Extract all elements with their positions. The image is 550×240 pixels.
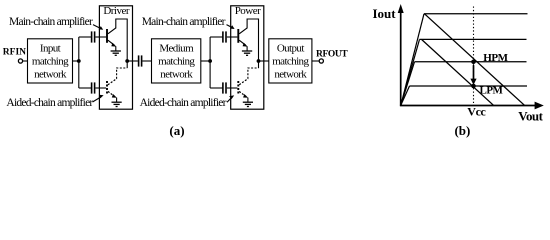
svg-text:network: network: [274, 68, 307, 80]
wire output box to RFOUT: [312, 60, 319, 62]
curve 4 flat top: [410, 85, 528, 87]
svg-text:Vcc: Vcc: [467, 104, 486, 118]
ground (Q2 emitter): [112, 102, 122, 106]
svg-text:Aided-chain amplifier: Aided-chain amplifier: [6, 97, 93, 109]
wire Q1 collector: [116, 19, 127, 61]
wire C2 to Q2 base: [95, 87, 106, 89]
wire node C to capacitor C5: [210, 87, 222, 89]
wire node B to capacitor C3: [127, 60, 138, 62]
svg-text:network: network: [160, 68, 193, 80]
x-axis Vout: [400, 105, 537, 107]
wire C4 to Q3 base: [227, 36, 238, 38]
curve 1 flat top: [424, 13, 528, 15]
svg-text:LPM: LPM: [480, 84, 504, 96]
svg-text:Main-chain amplifier: Main-chain amplifier: [142, 16, 226, 28]
arrow to Q4: [227, 98, 232, 103]
input matching network box: [28, 39, 73, 83]
svg-text:Output: Output: [277, 42, 305, 54]
svg-text:HPM: HPM: [483, 52, 508, 64]
arrow to Q2: [93, 97, 101, 102]
capacitor C3 (interstage coupling): [139, 55, 142, 66]
wire Q1 emitter stem: [115, 46, 117, 51]
wire node A to capacitor C2: [79, 87, 91, 89]
wire medium box to node C: [201, 60, 210, 62]
ground (Q3 emitter): [242, 51, 252, 55]
wire RFIN to input matching network: [23, 60, 28, 62]
arrow to Q3: [227, 25, 232, 28]
wire node D to output matching network: [259, 60, 269, 62]
transistor Q3 (power main-chain): [238, 28, 247, 47]
svg-text:RFOUT: RFOUT: [316, 49, 348, 59]
wire Q2 emitter stem: [116, 98, 118, 103]
medium matching network box: [152, 39, 201, 83]
svg-text:matching: matching: [158, 55, 195, 67]
wire node A to capacitor C1: [79, 36, 91, 38]
svg-text:Input: Input: [40, 42, 61, 54]
wire node C vertical rail: [209, 37, 211, 88]
svg-text:Vout: Vout: [518, 108, 543, 123]
svg-text:matching: matching: [272, 55, 309, 67]
svg-text:Iout: Iout: [373, 6, 397, 21]
svg-text:(a): (a): [169, 123, 184, 138]
wire Q4 emitter stem: [247, 98, 249, 103]
load line LPM: [422, 39, 494, 105]
node D junction dot: [257, 59, 261, 63]
node LPM operating point: [471, 84, 476, 89]
wire C5 to Q4 base: [227, 87, 238, 89]
curve 3 flat top: [415, 61, 527, 63]
curve 2 flat top: [420, 38, 527, 40]
arrow to Q1: [93, 25, 100, 29]
node A junction dot: [77, 59, 81, 63]
svg-text:RFIN: RFIN: [3, 47, 26, 57]
power box: [231, 6, 264, 109]
svg-text:Main-chain amplifier: Main-chain amplifier: [9, 16, 93, 28]
node B junction dot: [125, 59, 129, 63]
node HPM operating point: [471, 60, 476, 65]
transistor Q1 (driver main-chain): [107, 28, 116, 47]
wire Q3 emitter stem: [246, 46, 248, 51]
wire input box to node A: [73, 60, 79, 62]
svg-text:(b): (b): [454, 123, 470, 138]
RFOUT output terminal: [319, 59, 323, 63]
knee line to curve 2: [401, 39, 420, 105]
y-axis Iout: [400, 10, 402, 106]
output matching network box: [269, 39, 312, 83]
knee line to curve 4: [401, 86, 410, 105]
transistor Q4 (power aided-chain, dashed): [238, 79, 248, 97]
arrow HPM to LPM: [473, 65, 475, 80]
wire Q2 collector (dashed): [117, 68, 128, 79]
svg-text:Aided-chain amplifier: Aided-chain amplifier: [140, 97, 227, 109]
wire Q3 collector: [247, 19, 258, 61]
svg-text:matching: matching: [32, 55, 69, 67]
capacitor C4 (power main input): [223, 31, 226, 42]
knee line to curve 3: [401, 62, 415, 105]
svg-text:network: network: [34, 68, 67, 80]
dotted line at Vcc: [473, 7, 475, 106]
wire node C to capacitor C4: [210, 36, 222, 38]
node C junction dot: [208, 59, 212, 63]
driver box: [99, 6, 132, 109]
RFIN input terminal: [18, 59, 22, 63]
wire C1 to Q1 base: [95, 36, 106, 38]
wire Q2 collector to node B: [126, 61, 128, 68]
capacitor C5 (power aided input): [223, 82, 226, 93]
wire C3 to medium matching network: [142, 60, 151, 62]
ground (Q4 emitter): [243, 102, 253, 106]
wire Q4 collector to node D: [258, 61, 260, 68]
wire node A vertical rail: [78, 37, 80, 88]
ground (Q1 emitter): [111, 51, 121, 55]
svg-text:Driver: Driver: [103, 5, 130, 17]
wire Q4 collector (dashed): [248, 68, 259, 79]
svg-text:Power: Power: [235, 5, 261, 17]
svg-text:Medium: Medium: [159, 42, 194, 54]
transistor Q2 (driver aided-chain, dashed): [107, 79, 117, 97]
capacitor C1 (driver main input): [92, 31, 95, 42]
load line HPM: [425, 14, 525, 106]
capacitor C2 (driver aided input): [92, 82, 95, 93]
knee line to curve 1: [401, 14, 424, 105]
